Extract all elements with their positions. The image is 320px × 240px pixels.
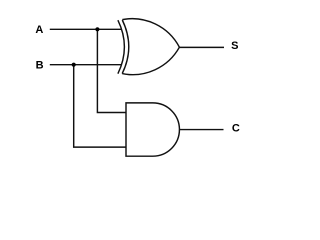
svg-text:C: C (232, 122, 240, 134)
svg-text:A: A (35, 24, 43, 36)
svg-text:B: B (36, 59, 44, 71)
svg-text:S: S (231, 40, 238, 52)
